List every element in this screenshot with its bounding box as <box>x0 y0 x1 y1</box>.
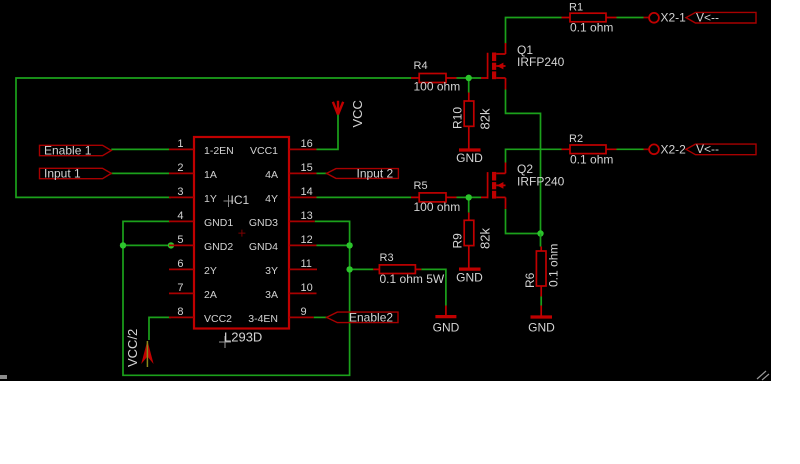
svg-text:12: 12 <box>301 234 313 246</box>
wire: R1 right to X2-1 pad <box>617 17 644 19</box>
resistor R1 <box>562 13 617 22</box>
svg-text:15: 15 <box>301 162 313 174</box>
svg-text:IRFP240: IRFP240 <box>517 55 565 69</box>
svg-text:IRFP240: IRFP240 <box>517 175 565 189</box>
net flag Input 1 <box>40 168 112 178</box>
svg-text:L293D: L293D <box>224 330 262 345</box>
scrollbar corner mark bottom-left <box>0 375 7 379</box>
svg-text:X2-1: X2-1 <box>661 11 687 25</box>
svg-text:0.1 ohm: 0.1 ohm <box>570 152 613 166</box>
transistor Q2 IRFP240 <box>481 163 506 209</box>
wire: junction drop to R10 <box>468 78 470 93</box>
pin 10 stub <box>289 292 317 294</box>
svg-text:4A: 4A <box>265 169 278 181</box>
wire: node down to R6 <box>540 234 542 247</box>
svg-text:R10: R10 <box>451 107 465 129</box>
supply VCC/2 symbol <box>141 341 153 365</box>
svg-text:Enable2: Enable2 <box>349 311 393 325</box>
svg-text:R1: R1 <box>569 2 583 14</box>
pin 11 stub <box>289 268 317 270</box>
node junction Q1 source/Q2 source/R6 <box>537 230 543 236</box>
svg-text:0.1 ohm: 0.1 ohm <box>547 244 561 287</box>
pin 2 stub <box>169 172 194 174</box>
node junction R5/Q2 gate/R9 <box>466 194 472 200</box>
svg-text:4Y: 4Y <box>265 193 278 205</box>
value label L293D with origin cross <box>219 336 231 348</box>
pin 13 stub <box>289 220 315 222</box>
svg-text:GND: GND <box>433 321 460 335</box>
pin 4 stub <box>169 220 194 222</box>
svg-text:1Y: 1Y <box>204 193 217 205</box>
connector pad X2-1 <box>644 17 649 19</box>
pin 7 stub <box>169 292 194 294</box>
svg-text:3: 3 <box>177 186 183 198</box>
svg-text:VCC1: VCC1 <box>250 145 278 157</box>
IC center origin mark <box>238 230 245 237</box>
svg-text:Input 1: Input 1 <box>44 167 81 181</box>
resize grip bottom-right <box>757 371 769 380</box>
svg-text:3Y: 3Y <box>265 265 278 277</box>
svg-text:GND3: GND3 <box>249 217 278 229</box>
ground below R10 <box>459 148 481 151</box>
pin 3 stub <box>169 196 194 198</box>
svg-text:5: 5 <box>177 234 183 246</box>
svg-text:11: 11 <box>301 258 312 270</box>
pin 1 stub <box>169 148 194 150</box>
ground below R3 <box>445 306 447 316</box>
svg-text:13: 13 <box>301 210 313 222</box>
wire: pin 14 (4Y) to R5 <box>317 196 412 198</box>
svg-text:82k: 82k <box>478 108 493 129</box>
wire: R6 bottom to GND <box>540 297 542 306</box>
net flag Input 2 <box>327 169 399 179</box>
resistor R4 <box>411 74 457 83</box>
pin 14 stub <box>289 196 317 198</box>
svg-text:GND: GND <box>528 321 555 335</box>
wire: R3 right down to GND <box>421 269 446 305</box>
svg-text:VCC/2: VCC/2 <box>125 329 140 367</box>
resistor R5 <box>411 193 457 202</box>
wire: net from pin 3 (1Y) long loop left and up to R4 <box>16 78 411 197</box>
transistor Q1 IRFP240 <box>481 43 506 90</box>
connector pad X2-2 <box>644 148 649 150</box>
node junction gnd loop at pin 5 row <box>120 242 126 248</box>
ground below R9 <box>459 268 481 271</box>
svg-text:GND2: GND2 <box>204 241 233 253</box>
svg-text:6: 6 <box>177 258 183 270</box>
svg-text:4: 4 <box>177 210 183 222</box>
svg-text:1-2EN: 1-2EN <box>204 145 234 157</box>
net flag V<-- (X2-1) <box>686 12 756 23</box>
wire: pin 16 (VCC1) to VCC arrow <box>317 115 339 150</box>
wire: R5 right to Q2 gate <box>457 196 482 198</box>
IC1 origin cross <box>224 195 234 207</box>
wire: pin 5 (GND2) stub wire <box>123 244 171 246</box>
net flag Enable2 <box>327 312 398 323</box>
supply VCC symbol <box>333 101 343 115</box>
wire: pin 12 (GND4) to gnd loop <box>317 244 350 246</box>
node junction R4/Q1 gate/R10 <box>466 75 472 81</box>
pin 15 stub <box>289 172 317 174</box>
net flag V<-- (X2-2) <box>686 144 756 155</box>
svg-text:2Y: 2Y <box>204 265 217 277</box>
svg-text:14: 14 <box>301 186 313 198</box>
wire: Enable 1 flag to pin 1 <box>111 148 169 150</box>
svg-text:X2-2: X2-2 <box>661 142 687 156</box>
wire: Q1 source down, jog right, down to R6 node <box>506 90 541 234</box>
svg-text:R3: R3 <box>380 252 394 264</box>
svg-text:0.1 ohm 5W: 0.1 ohm 5W <box>380 272 445 286</box>
node junction at pin 5 end <box>168 242 174 248</box>
svg-text:VCC: VCC <box>350 100 365 127</box>
pin 9 stub <box>289 316 314 318</box>
svg-text:GND1: GND1 <box>204 217 233 229</box>
wire: Q2 drain up to R2 row, right to R2 <box>506 149 562 162</box>
pin 12 stub <box>289 244 317 246</box>
node junction gnd loop at R3 row <box>346 266 352 272</box>
pin 6 stub <box>169 268 194 270</box>
wire: Q1 drain up and right to R1 <box>506 18 562 44</box>
pin 8 stub <box>169 316 194 318</box>
svg-text:R5: R5 <box>414 180 428 192</box>
svg-text:Enable 1: Enable 1 <box>44 143 92 157</box>
wire: junction drop to R9 <box>468 197 470 212</box>
svg-text:V<--: V<-- <box>696 142 719 156</box>
svg-text:1A: 1A <box>204 169 217 181</box>
svg-text:3-4EN: 3-4EN <box>248 313 278 325</box>
wire: Input 1 flag to pin 2 <box>111 172 169 174</box>
IC IC1 L293D body <box>194 137 289 329</box>
wire: R2 right to X2-2 pad <box>617 148 644 150</box>
net flag Enable 1 <box>40 145 112 155</box>
svg-text:7: 7 <box>177 282 183 294</box>
resistor R6 <box>536 247 546 297</box>
svg-text:1: 1 <box>177 138 183 150</box>
svg-text:Input 2: Input 2 <box>357 167 394 181</box>
pin 5 stub <box>169 244 194 246</box>
svg-text:0.1 ohm: 0.1 ohm <box>570 21 613 35</box>
pin 16 stub <box>289 148 317 150</box>
svg-text:R4: R4 <box>414 60 428 72</box>
resistor R3 <box>373 265 421 274</box>
svg-text:R9: R9 <box>451 233 465 249</box>
svg-text:3A: 3A <box>265 289 278 301</box>
svg-text:R6: R6 <box>523 272 537 288</box>
svg-text:GND4: GND4 <box>249 241 278 253</box>
wire: pin 15 to Input 2 flag <box>317 172 328 174</box>
svg-text:GND: GND <box>456 151 483 165</box>
svg-text:9: 9 <box>301 306 307 318</box>
svg-text:10: 10 <box>301 282 313 294</box>
ground below R6 <box>531 306 553 318</box>
svg-text:V<--: V<-- <box>696 10 719 24</box>
svg-text:16: 16 <box>301 138 313 150</box>
svg-text:2A: 2A <box>204 289 217 301</box>
node junction gnd loop at pin 12 row <box>346 242 352 248</box>
resistor R2 <box>562 145 617 154</box>
wire: gnd loop to R3 <box>350 268 374 270</box>
resistor R10 <box>464 93 474 149</box>
wire: pin 4 (GND1) to left gnd loop <box>123 221 350 375</box>
svg-text:100 ohm: 100 ohm <box>414 79 461 93</box>
svg-text:VCC2: VCC2 <box>204 313 232 325</box>
wire: pin 9 to Enable2 flag <box>314 316 327 318</box>
wire: R4 right to Q1 gate <box>457 77 482 79</box>
svg-text:GND: GND <box>456 270 483 284</box>
wire: pin 8 (VCC2) to VCC/2 arrow <box>149 317 171 340</box>
svg-text:IC1: IC1 <box>231 193 250 207</box>
svg-text:82k: 82k <box>478 228 493 249</box>
resistor R9 <box>464 213 474 268</box>
svg-text:2: 2 <box>177 162 183 174</box>
svg-text:R2: R2 <box>569 133 583 145</box>
schematic black canvas <box>0 0 771 381</box>
wire: Q2 source down and right to R6 node <box>506 209 541 234</box>
svg-text:8: 8 <box>177 306 183 318</box>
svg-text:100 ohm: 100 ohm <box>414 200 461 214</box>
